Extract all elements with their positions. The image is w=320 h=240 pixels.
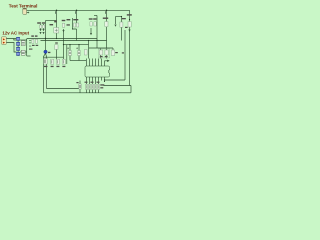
svg-text:12v AC input: 12v AC input [2,30,29,35]
svg-text:Test Terminal: Test Terminal [9,3,38,8]
